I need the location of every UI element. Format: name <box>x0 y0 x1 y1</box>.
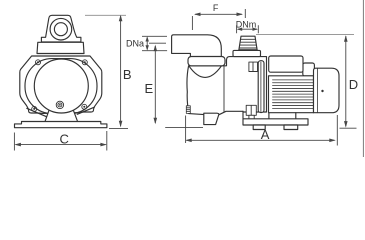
svg-text:B: B <box>123 67 132 82</box>
svg-text:F: F <box>213 3 219 13</box>
svg-text:DNa: DNa <box>126 38 144 48</box>
svg-text:DNm: DNm <box>236 20 256 30</box>
svg-text:D: D <box>349 77 358 92</box>
svg-text:C: C <box>60 132 69 147</box>
svg-text:E: E <box>145 81 154 96</box>
svg-text:A: A <box>261 127 270 142</box>
